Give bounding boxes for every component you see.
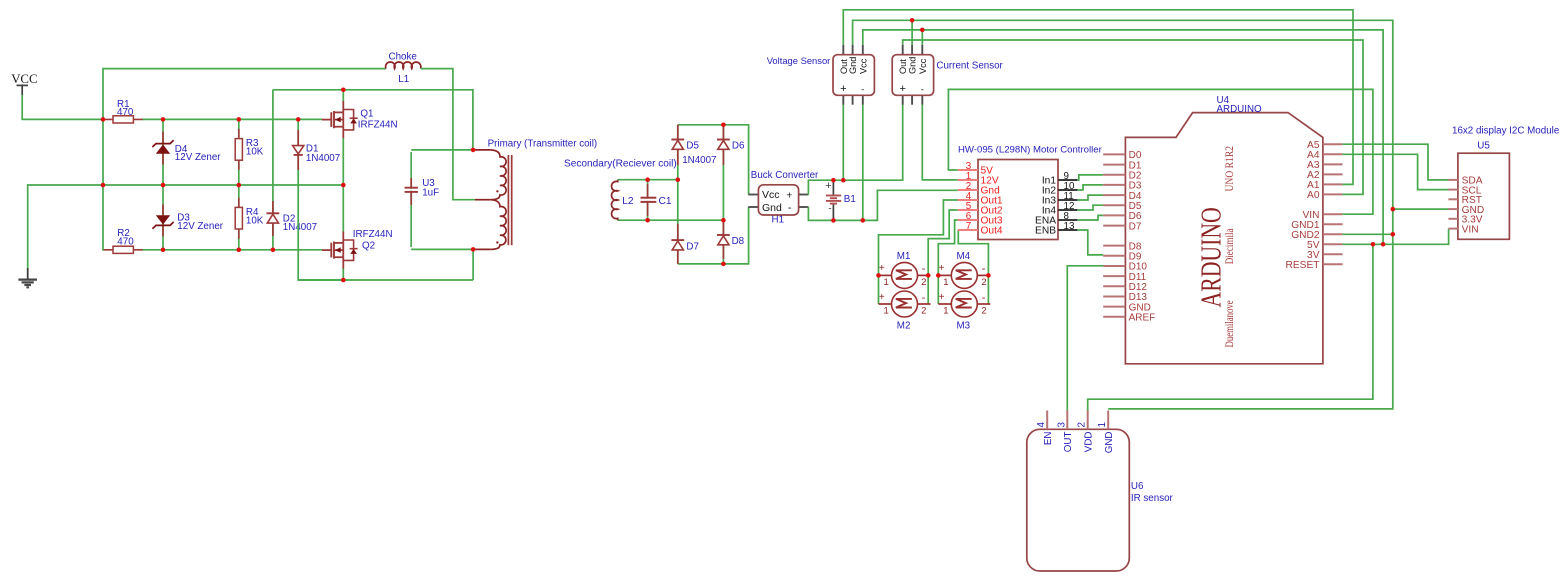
svg-text:ARDUINO: ARDUINO (1217, 104, 1263, 115)
svg-text:B1: B1 (844, 194, 856, 205)
wire VCC vertical bus x=103 with top run to choke (103, 69, 386, 250)
wire gate rail top y=119 (142, 118, 323, 120)
resistor R1 (104, 99, 143, 123)
svg-text:C1: C1 (659, 196, 672, 207)
junction node M4 minus (986, 273, 991, 278)
wire In3 to D4 (1077, 195, 1103, 200)
junction node current sensor Vcc bus (920, 28, 925, 33)
svg-text:Vcc: Vcc (858, 58, 868, 74)
transistor Q2 IRFZ44N (322, 229, 393, 268)
svg-text:H1: H1 (772, 215, 785, 226)
svg-text:Vcc: Vcc (918, 58, 928, 74)
wire Out2 to motors M1 M2 minus (928, 210, 958, 304)
svg-text:Out4: Out4 (981, 226, 1003, 237)
junction node voltage sensor plus (841, 178, 846, 183)
svg-text:L1: L1 (398, 74, 409, 85)
svg-text:Q2: Q2 (362, 240, 375, 251)
svg-text:2: 2 (921, 277, 926, 288)
junction node 5V line IR VDD (1371, 242, 1376, 247)
resistor R3 (235, 129, 264, 170)
junction node 5V line sensor Vcc (1381, 242, 1386, 247)
svg-text:Primary (Transmitter coil): Primary (Transmitter coil) (488, 139, 598, 150)
svg-text:M2: M2 (897, 320, 911, 331)
svg-text:12V Zener: 12V Zener (177, 221, 223, 232)
svg-text:Voltage Sensor: Voltage Sensor (767, 55, 831, 66)
svg-text:2: 2 (1077, 422, 1088, 427)
wire In4 to D5 (1077, 205, 1103, 210)
junction node B1 plus (831, 178, 836, 183)
svg-text:1uF: 1uF (422, 188, 439, 199)
junction node current sensor Gnd bus (910, 18, 915, 23)
wire current sensor Out net to A0 (903, 40, 1363, 194)
wire D1 column x=298 down to Q2 source line (298, 119, 343, 280)
transistor Q1 IRFZ44N (322, 101, 398, 138)
svg-text:Current Sensor: Current Sensor (936, 61, 1003, 72)
wire A4 to display SCL (1343, 154, 1449, 189)
wire IR VDD to 5V line (1088, 244, 1373, 410)
svg-text:16x2 display I2C Module: 16x2 display I2C Module (1452, 125, 1560, 136)
svg-text:ENB: ENB (1035, 226, 1056, 237)
junction node C1 top (645, 177, 650, 182)
svg-text:+: + (939, 263, 945, 274)
svg-text:4: 4 (1036, 422, 1047, 428)
svg-text:UNO R1R2: UNO R1R2 (1223, 146, 1236, 192)
svg-text:Gnd: Gnd (762, 202, 782, 214)
module U5 16x2 display I2C Module (1448, 125, 1559, 239)
wire Out1 to motors M1 M2 plus (879, 200, 958, 304)
junction node bridge plus rail (721, 123, 726, 128)
svg-text:+: + (879, 292, 885, 303)
junction node D5-D7 tap (676, 177, 681, 182)
junction node primary bottom (471, 247, 476, 252)
wire Q1 drain stub (342, 90, 344, 101)
svg-text:1: 1 (1097, 422, 1108, 427)
resistor R4 (235, 198, 264, 239)
junction node D4 cathode rail (161, 117, 166, 122)
svg-text:HW-095 (L298N) Motor Controlle: HW-095 (L298N) Motor Controller (958, 144, 1103, 155)
resistor R2 (104, 228, 143, 253)
junction node voltage sensor minus (861, 218, 866, 223)
module Current Sensor (892, 45, 1003, 105)
svg-text:U5: U5 (1477, 140, 1490, 151)
wire current sensor Gnd stub to bus (911, 20, 913, 45)
battery B1 (825, 180, 856, 220)
capacitor C1 (641, 184, 672, 216)
svg-text:-: - (922, 263, 926, 275)
svg-text:Secondary(Reciever coil): Secondary(Reciever coil) (564, 158, 677, 169)
svg-text:1N4007: 1N4007 (682, 155, 716, 166)
wire buck minus output to B1 minus and Gnd pin (808, 190, 957, 220)
wire Arduino 5V to display VIN (1343, 229, 1449, 245)
wire secondary tank top (618, 179, 678, 181)
junction node GND2 bus (1391, 232, 1396, 237)
svg-text:D8: D8 (732, 236, 745, 247)
svg-text:M4: M4 (957, 251, 971, 262)
svg-text:+: + (786, 189, 792, 201)
ground (18, 268, 37, 287)
wire current sensor minus to 12V pin (922, 105, 958, 180)
wire A5 to display SDA (1343, 144, 1449, 180)
motor M1 (879, 251, 931, 288)
svg-text:VDD: VDD (1084, 432, 1095, 453)
svg-text:Q1: Q1 (360, 108, 373, 119)
svg-text:1: 1 (883, 306, 888, 317)
wire In1 to D2 (1077, 175, 1103, 180)
svg-text:U6: U6 (1131, 481, 1144, 492)
svg-text:+: + (840, 83, 846, 95)
wire VCC feed to R1 rail (22, 95, 104, 120)
junction node M1 plus (876, 273, 881, 278)
wire display GND to gnd bus (1393, 208, 1449, 210)
junction node D1 top rail (296, 117, 301, 122)
module U6 IR sensor (1027, 411, 1174, 572)
diode D8 (717, 220, 745, 259)
wire bridge right column x=723 (722, 125, 724, 264)
diode D1 1N4007 (293, 130, 341, 170)
junction node R3-R4 mid rail (237, 183, 242, 188)
wire ENB to D9 (1077, 230, 1103, 255)
motor M3 (938, 291, 990, 331)
wire Vcc net sensor bus to 5V line (863, 30, 1383, 244)
svg-text:-: - (982, 292, 986, 304)
inductor L1 Choke (386, 51, 421, 85)
wire zener column x=163 (162, 119, 164, 249)
svg-text:IRFZ44N: IRFZ44N (353, 229, 393, 240)
wire resistor column x=239 (238, 119, 240, 249)
svg-text:Vcc: Vcc (762, 189, 780, 201)
svg-text:M3: M3 (957, 320, 971, 331)
junction node Q1 drain top bus (341, 88, 346, 93)
wire voltage sensor minus down to Gnd net (862, 105, 864, 221)
junction node primary top (471, 148, 476, 153)
junction node D3 bottom rail (161, 248, 166, 253)
svg-text:2: 2 (921, 306, 926, 317)
wire secondary tank bottom (618, 219, 724, 221)
power symbol VCC (11, 72, 37, 95)
svg-text:IRFZ44N: IRFZ44N (358, 119, 398, 130)
wire mid source rail y=185 and ground stem (28, 185, 344, 268)
wire bridge left column x=678 (677, 125, 679, 264)
junction node R4 bottom rail (237, 248, 242, 253)
module H1 Buck Converter (748, 170, 819, 225)
wire HW-095 5V pin to Arduino VIN (948, 89, 1373, 214)
junction node D6-D8 tap (721, 218, 726, 223)
svg-text:+: + (939, 292, 945, 303)
svg-text:D5: D5 (686, 141, 699, 152)
svg-text:12V Zener: 12V Zener (175, 152, 221, 163)
capacitor U3 1uF (405, 178, 439, 205)
svg-text:ARDUINO: ARDUINO (1194, 207, 1227, 307)
svg-text:-: - (861, 84, 864, 94)
svg-text:D7: D7 (1129, 221, 1142, 232)
diode D5 1N4007 (671, 125, 716, 166)
wire tank cap loop (298, 150, 473, 280)
svg-text:470: 470 (117, 107, 134, 118)
svg-text:1: 1 (943, 277, 948, 288)
diode D6 (717, 125, 745, 165)
svg-text:RESET: RESET (1286, 260, 1320, 271)
svg-text:Diecimila: Diecimila (1224, 228, 1236, 264)
junction node mid rail VCC column (101, 183, 106, 188)
svg-text:Duemilanove: Duemilanove (1224, 300, 1237, 347)
svg-text:-: - (922, 292, 926, 304)
svg-text:Gnd: Gnd (848, 57, 858, 74)
junction node display GND bus (1391, 207, 1396, 212)
wire Q2 source stub (342, 268, 344, 280)
wire gate rail bottom y=250 (142, 249, 323, 251)
wire top bus y=89.8 to primary (273, 90, 473, 150)
svg-text:L2: L2 (622, 196, 634, 207)
diode D2 1N4007 (267, 201, 318, 236)
junction node C1 bottom (645, 218, 650, 223)
wire buck plus output to B1 plus and current sensor (808, 105, 902, 195)
wire Gnd net sensor bus down to IR sensor GND (853, 20, 1393, 409)
svg-text:+: + (825, 180, 831, 192)
svg-text:-: - (828, 204, 831, 215)
wire GND2 to gnd bus (1343, 233, 1393, 235)
svg-text:Choke: Choke (389, 51, 418, 62)
junction node bridge minus rail (721, 262, 726, 267)
wire choke to primary centre tap (421, 69, 475, 200)
transformer primary Transmitter coil (473, 139, 597, 250)
diode D3 12V Zener (152, 204, 223, 236)
wire voltage sensor plus down to B1 net (842, 105, 844, 181)
svg-text:IR sensor: IR sensor (1131, 493, 1174, 504)
junction node B1 minus (831, 218, 836, 223)
svg-text:7: 7 (966, 221, 971, 232)
diode D7 (671, 224, 699, 264)
inductor L2 (612, 180, 634, 221)
svg-text:-: - (788, 202, 792, 214)
svg-text:2: 2 (981, 306, 986, 317)
junction node VCC-R1 rail (101, 117, 106, 122)
motor M2 (879, 291, 931, 331)
module Voltage Sensor (767, 45, 875, 105)
svg-text:D7: D7 (686, 241, 699, 252)
svg-text:2: 2 (981, 277, 986, 288)
svg-text:10K: 10K (246, 215, 264, 226)
svg-text:OUT: OUT (1063, 431, 1074, 452)
junction node M4 plus (936, 273, 941, 278)
svg-text:1N4007: 1N4007 (283, 222, 317, 233)
svg-text:-: - (982, 263, 986, 275)
wire ENA to D6 (1077, 215, 1103, 220)
svg-text:AREF: AREF (1129, 312, 1156, 323)
svg-text:+: + (879, 263, 885, 274)
svg-text:A0: A0 (1307, 190, 1320, 201)
wire D2 column x=273 from top bus (272, 90, 274, 250)
wire current sensor Vcc stub to bus (921, 30, 923, 45)
diode D4 12V Zener (152, 132, 221, 165)
wire bridge bottom rail to buck Gnd (678, 207, 749, 264)
wire Out4 to motors M4 M3 minus (958, 230, 989, 304)
svg-text:13: 13 (1064, 221, 1075, 232)
wire Q1 source to mid rail to Q2 drain (342, 138, 344, 232)
junction node D3-D4 mid rail (161, 183, 166, 188)
svg-text:D6: D6 (732, 141, 745, 152)
wire C1 column (647, 180, 649, 221)
svg-text:EN: EN (1043, 432, 1054, 446)
junction node D2 bottom rail (271, 248, 276, 253)
junction node R3 top rail (237, 117, 242, 122)
wire In2 to D3 (1077, 185, 1103, 190)
svg-text:1N4007: 1N4007 (306, 153, 340, 164)
svg-text:+: + (899, 83, 905, 95)
svg-text:470: 470 (117, 236, 134, 247)
svg-text:VCC: VCC (11, 72, 37, 86)
svg-text:GND: GND (1104, 432, 1115, 454)
wire Out3 to motors M4 M3 plus (938, 220, 958, 304)
module HW-095 L298N Motor Controller (958, 144, 1103, 239)
junction node M1 minus (926, 273, 931, 278)
svg-text:1: 1 (943, 306, 948, 317)
svg-text:Gnd: Gnd (908, 57, 918, 74)
motor M4 (938, 251, 990, 288)
svg-text:VIN: VIN (1462, 224, 1479, 235)
svg-text:10K: 10K (246, 147, 264, 158)
junction node Q1 source Q2 drain (341, 183, 346, 188)
wire bridge top rail to buck Vcc (678, 125, 749, 195)
wire D10 to IR sensor OUT (1067, 266, 1103, 411)
svg-text:M1: M1 (897, 251, 911, 262)
junction node Q2 source line (341, 278, 346, 283)
svg-text:1: 1 (883, 277, 888, 288)
svg-text:-: - (921, 84, 924, 94)
svg-text:3: 3 (1056, 422, 1067, 428)
label Secondary Reciever coil (564, 158, 677, 169)
wire voltage sensor Out net to A1 (843, 10, 1353, 185)
mcu U4 ARDUINO (1103, 95, 1342, 364)
